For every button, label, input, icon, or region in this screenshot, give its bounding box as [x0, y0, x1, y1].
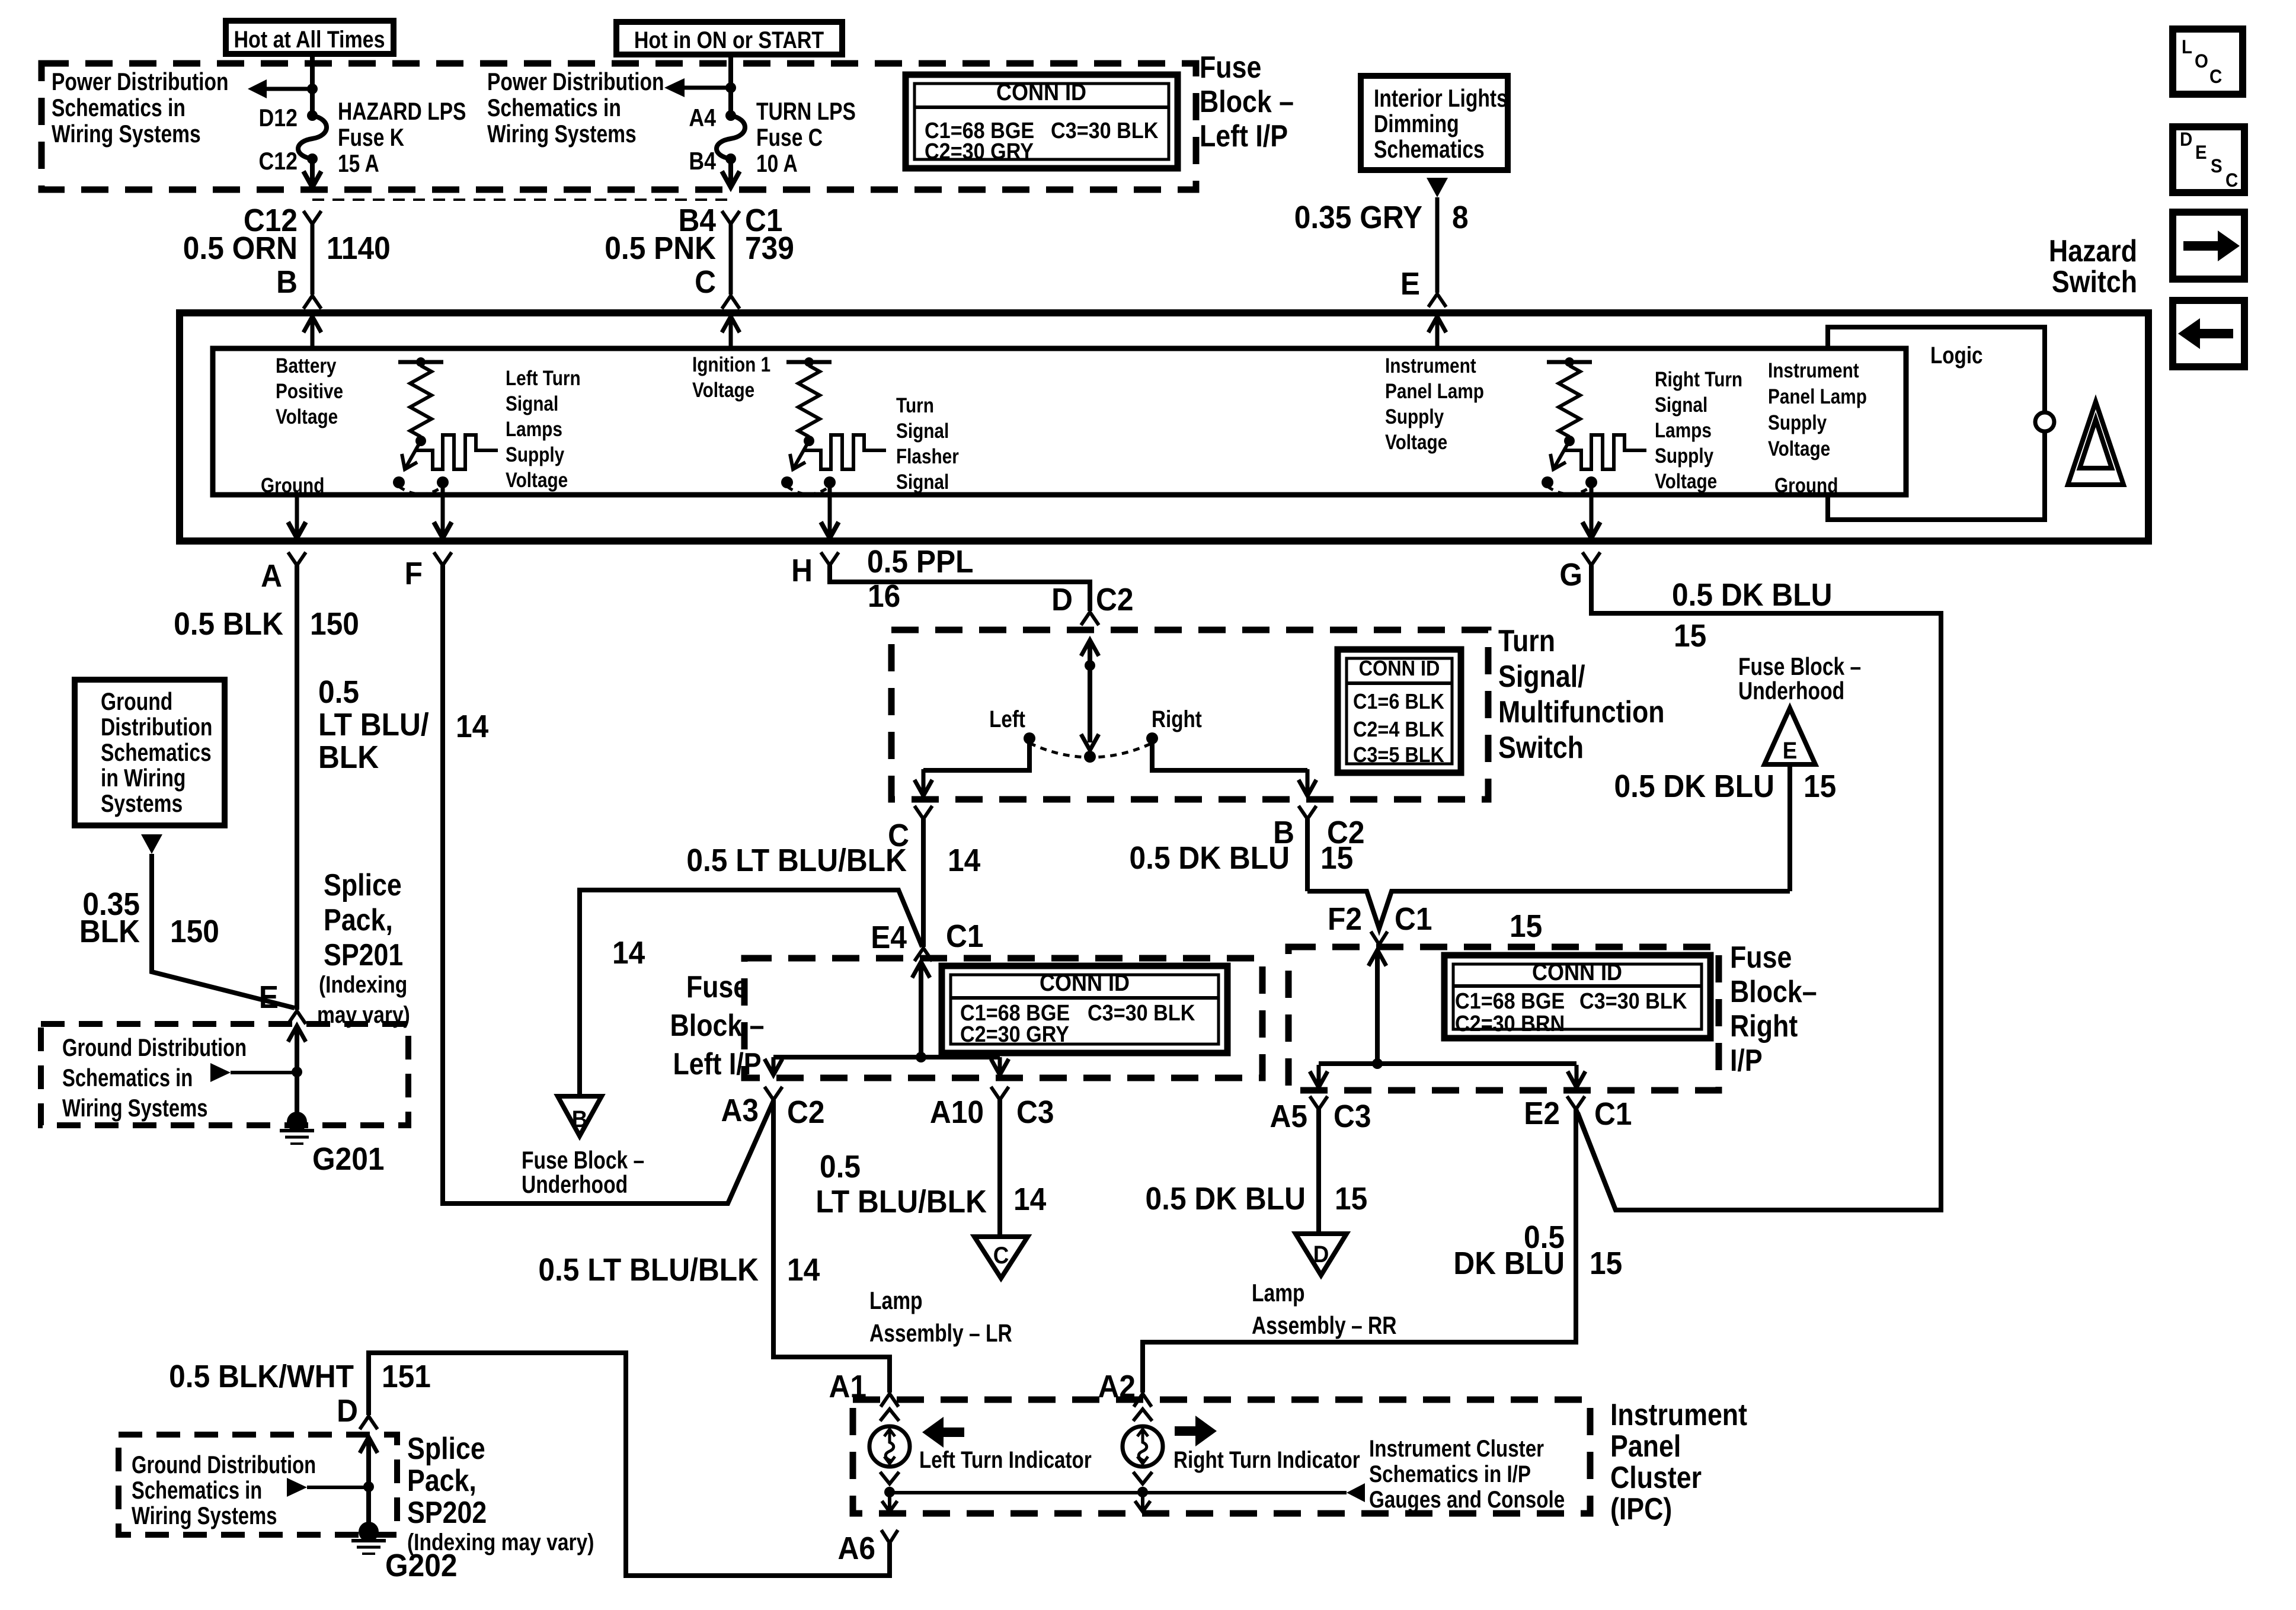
box Ground Distribution Schematics in Wiring Systems: [75, 680, 225, 825]
pin G exit arrow: [1590, 482, 1594, 534]
icon box right-arrow: [2173, 212, 2244, 279]
svg-text:Schematics: Schematics: [101, 740, 212, 767]
dashed box: Power Distribution / Fuse Block - Left I/P: [41, 63, 1196, 190]
wire 14 LT BLU/BLK from pin F: [443, 565, 773, 1204]
dashed box ground distribution SP202: [119, 1435, 397, 1535]
ground G201 symbol: [287, 1112, 307, 1132]
svg-text:Ignition 1: Ignition 1: [692, 353, 770, 376]
connector H below hazard switch: [821, 552, 839, 565]
left turn indicator lamp: [869, 1426, 910, 1467]
svg-text:15: 15: [1803, 768, 1836, 804]
left turn indicator lamp outlet chevron: [880, 1472, 899, 1484]
svg-text:Assembly – LR: Assembly – LR: [869, 1320, 1012, 1347]
connector A1 at instrument panel cluster: [881, 1394, 898, 1407]
svg-text:C: C: [993, 1243, 1009, 1269]
switch contact Left: [1024, 732, 1035, 744]
triangle connector B fuse block underhood: [558, 1096, 602, 1136]
junction node SP201: [292, 1067, 302, 1077]
svg-text:Lamp: Lamp: [1252, 1280, 1305, 1307]
svg-text:15: 15: [1510, 908, 1542, 943]
svg-text:Pack,: Pack,: [324, 903, 393, 937]
connector A6 below cluster: [881, 1530, 898, 1543]
svg-text:CONN ID: CONN ID: [996, 79, 1086, 105]
svg-text:Dimming: Dimming: [1374, 111, 1459, 138]
svg-text:Fuse: Fuse: [686, 970, 748, 1004]
left lamp junction node: [884, 1487, 895, 1497]
arrow to ground distribution schematics (G201): [210, 1063, 231, 1082]
svg-text:0.5 DK BLU: 0.5 DK BLU: [1672, 577, 1832, 612]
junction node SP202: [363, 1481, 374, 1492]
wire into splice SP201: [295, 1024, 299, 1028]
svg-text:SP202: SP202: [407, 1496, 487, 1530]
svg-text:Ground Distribution: Ground Distribution: [62, 1033, 247, 1061]
svg-text:Ground Distribution: Ground Distribution: [132, 1451, 316, 1478]
svg-text:16: 16: [868, 578, 900, 613]
svg-text:A4: A4: [689, 104, 716, 132]
fuse K HAZARD LPS 15A: [307, 110, 318, 121]
right turn indicator lamp inlet chevron: [1133, 1409, 1152, 1421]
wire from Left contact to pin C: [923, 743, 1029, 770]
svg-text:Logic: Logic: [1930, 342, 1983, 369]
hazard warning triangle symbol: [2068, 402, 2124, 485]
svg-text:Wiring Systems: Wiring Systems: [52, 121, 201, 148]
svg-text:Right: Right: [1730, 1009, 1798, 1044]
svg-text:DK BLU: DK BLU: [1453, 1245, 1565, 1281]
svg-text:15: 15: [1320, 840, 1353, 875]
svg-text:D: D: [1051, 581, 1073, 617]
right turn indicator lamp: [1123, 1426, 1163, 1467]
svg-text:Switch: Switch: [1498, 731, 1584, 765]
svg-text:Turn: Turn: [1498, 624, 1555, 658]
svg-text:HAZARD LPS: HAZARD LPS: [338, 98, 466, 126]
svg-text:10 A: 10 A: [756, 151, 798, 178]
svg-text:E2: E2: [1524, 1095, 1560, 1131]
svg-text:Fuse K: Fuse K: [338, 124, 404, 152]
connector F below hazard switch: [434, 552, 452, 565]
svg-text:Voltage: Voltage: [1655, 470, 1717, 493]
svg-text:D: D: [2180, 129, 2192, 150]
connector A3/C2: [765, 1087, 782, 1100]
switch throw dashed arc: [1029, 743, 1152, 757]
connector A2 at instrument panel cluster: [1134, 1394, 1152, 1407]
svg-text:A3: A3: [721, 1092, 759, 1128]
connector D/C2 at multifunction switch: [1081, 612, 1099, 625]
svg-text:Splice: Splice: [407, 1432, 485, 1466]
svg-text:CONN ID: CONN ID: [1532, 959, 1622, 985]
fuse block left internal wire: [919, 960, 923, 964]
CONN ID table: fuse block left I/P (lower): [942, 966, 1227, 1053]
svg-text:14: 14: [948, 842, 980, 878]
svg-text:G: G: [1559, 556, 1582, 592]
svg-text:D: D: [1313, 1241, 1329, 1268]
svg-text:C12: C12: [259, 148, 298, 175]
svg-text:Gauges and Console: Gauges and Console: [1369, 1486, 1565, 1513]
svg-text:E4: E4: [871, 919, 907, 955]
svg-text:15 A: 15 A: [338, 151, 379, 178]
svg-text:C3=30 BLK: C3=30 BLK: [1051, 117, 1158, 143]
thin dashed connector line C1: [312, 199, 731, 201]
svg-text:E: E: [259, 979, 279, 1014]
svg-text:0.5 LT BLU/BLK: 0.5 LT BLU/BLK: [538, 1251, 759, 1287]
logic box: [1828, 327, 2045, 520]
svg-text:Schematics in: Schematics in: [487, 95, 621, 122]
svg-text:Switch: Switch: [2052, 265, 2137, 299]
wire 8 GRY: interior lights dimming to hazard switch pin E: [1427, 178, 1448, 197]
svg-text:F: F: [405, 555, 423, 591]
hazard switch pin-row inner box: [213, 348, 1906, 495]
svg-text:D12: D12: [259, 104, 298, 132]
ground bus wire inside cluster: [890, 1491, 1347, 1494]
svg-text:C2=30 GRY: C2=30 GRY: [925, 138, 1034, 164]
svg-text:Schematics: Schematics: [1374, 136, 1485, 164]
svg-text:C2=4 BLK: C2=4 BLK: [1353, 718, 1444, 741]
dashed box Fuse Block - Right I/P: [1288, 947, 1719, 1090]
svg-text:Distribution: Distribution: [101, 714, 212, 741]
svg-text:0.5 BLK: 0.5 BLK: [174, 606, 283, 641]
pin F exit arrow: [441, 482, 445, 534]
svg-text:C3=30 BLK: C3=30 BLK: [1088, 1000, 1195, 1025]
svg-text:BLK: BLK: [318, 739, 379, 774]
wire from Right contact to pin B: [1152, 743, 1307, 770]
svg-text:Left I/P: Left I/P: [1200, 119, 1288, 153]
svg-text:O: O: [2195, 50, 2208, 72]
connector D at splice pack SP202: [360, 1416, 378, 1429]
wire 739 PNK: connector B4/C1 to hazard switch pin C: [722, 211, 740, 224]
svg-text:Voltage: Voltage: [692, 379, 754, 402]
svg-text:Lamps: Lamps: [506, 418, 562, 441]
svg-text:S: S: [2211, 155, 2223, 177]
svg-text:C1=6 BLK: C1=6 BLK: [1353, 690, 1444, 713]
svg-text:Block –: Block –: [670, 1009, 764, 1043]
CONN ID table: fuse block left I/P (top): [906, 75, 1178, 168]
svg-text:Ground: Ground: [101, 689, 172, 716]
svg-text:Hazard: Hazard: [2049, 234, 2137, 268]
right turn signal resistor and switch: [1547, 360, 1592, 364]
svg-text:0.5 ORN: 0.5 ORN: [183, 230, 298, 265]
svg-text:Fuse C: Fuse C: [756, 124, 823, 152]
left turn signal resistor and switch: [398, 360, 443, 364]
svg-text:Left Turn: Left Turn: [506, 367, 581, 390]
svg-text:Supply: Supply: [1655, 444, 1713, 468]
pin E entry arrow: [1435, 316, 1440, 348]
svg-text:C3=30 BLK: C3=30 BLK: [1579, 988, 1687, 1013]
svg-text:739: 739: [745, 230, 794, 265]
svg-text:A: A: [261, 558, 282, 593]
svg-text:Right Turn: Right Turn: [1655, 368, 1742, 391]
wire 15 DK BLU from pin G: [1578, 565, 1941, 1210]
svg-text:Instrument Cluster: Instrument Cluster: [1369, 1435, 1544, 1462]
wire 150 BLK from pin A: [295, 565, 299, 1010]
wire from Hot at All Times to fuse K: [310, 54, 315, 116]
svg-text:14: 14: [456, 708, 488, 744]
pin H exit arrow: [828, 482, 832, 534]
svg-text:14: 14: [787, 1251, 820, 1287]
left turn indicator lamp inlet chevron: [880, 1409, 899, 1421]
left arrow indicator icon: [944, 1427, 964, 1437]
svg-text:Turn: Turn: [896, 394, 934, 417]
svg-text:Instrument: Instrument: [1610, 1398, 1747, 1432]
svg-text:B4: B4: [689, 148, 716, 175]
svg-text:Power Distribution: Power Distribution: [52, 69, 229, 96]
svg-text:Instrument: Instrument: [1385, 354, 1476, 377]
svg-text:E: E: [1783, 738, 1798, 764]
svg-text:(IPC): (IPC): [1610, 1492, 1672, 1526]
fuse block right internal wire: [1376, 948, 1380, 952]
icon box left-arrow: [2173, 300, 2244, 367]
svg-text:Wiring Systems: Wiring Systems: [62, 1094, 207, 1122]
svg-text:E: E: [1400, 265, 1420, 301]
svg-text:CONN ID: CONN ID: [1040, 970, 1130, 996]
wire branch to fuse block underhood B: [580, 890, 922, 1096]
svg-text:15: 15: [1674, 617, 1706, 653]
svg-text:0.35 GRY: 0.35 GRY: [1294, 199, 1422, 235]
svg-text:C3: C3: [1016, 1094, 1054, 1129]
svg-text:C3: C3: [1334, 1098, 1371, 1134]
turn signal flasher resistor and switch: [786, 360, 832, 364]
wire 15 DK BLU pin B to fuse block right F2: [1305, 819, 1310, 891]
hazard switch outer box: [180, 313, 2148, 541]
svg-text:Lamps: Lamps: [1655, 419, 1712, 442]
svg-text:C2=30 GRY: C2=30 GRY: [960, 1021, 1069, 1046]
dashed box Turn Signal/Multifunction Switch: [891, 630, 1488, 799]
svg-text:C3=5 BLK: C3=5 BLK: [1353, 743, 1444, 767]
icon box LOC: [2173, 29, 2243, 94]
dashed box ground distribution G201: [41, 1024, 408, 1125]
wire 14 LT BLU/BLK A10 to lamp assembly LR: [997, 1100, 1002, 1237]
wire 16 PPL from pin H: [830, 565, 1090, 611]
svg-text:Block–: Block–: [1730, 975, 1817, 1009]
right lamp junction node: [1137, 1487, 1148, 1497]
svg-text:Right: Right: [1152, 706, 1202, 732]
svg-text:Left I/P: Left I/P: [673, 1047, 761, 1081]
svg-text:Voltage: Voltage: [1768, 437, 1830, 460]
svg-text:in Wiring: in Wiring: [101, 765, 186, 792]
CONN ID table: multifunction switch: [1338, 649, 1461, 773]
svg-text:0.5 LT BLU/BLK: 0.5 LT BLU/BLK: [686, 842, 907, 878]
connector C below multifunction switch: [914, 806, 932, 819]
svg-text:Multifunction: Multifunction: [1498, 695, 1665, 729]
svg-text:Voltage: Voltage: [276, 405, 338, 428]
svg-text:A6: A6: [837, 1530, 875, 1566]
ground G202 symbol: [359, 1522, 379, 1542]
svg-text:LT BLU/BLK: LT BLU/BLK: [816, 1183, 987, 1219]
svg-text:Left: Left: [989, 706, 1025, 732]
svg-text:Ground: Ground: [1774, 474, 1838, 497]
svg-text:Splice: Splice: [324, 868, 402, 902]
svg-text:Hot in ON or START: Hot in ON or START: [634, 26, 824, 53]
triangle connector D lamp assembly RR: [1296, 1234, 1347, 1275]
svg-text:C2: C2: [787, 1094, 825, 1129]
svg-text:Block –: Block –: [1200, 85, 1294, 119]
svg-text:A5: A5: [1269, 1098, 1307, 1134]
svg-text:Hot at All Times: Hot at All Times: [234, 25, 385, 52]
svg-text:Battery: Battery: [276, 354, 336, 377]
connector G below hazard switch: [1582, 552, 1600, 565]
wire 15 DK BLU A5 to lamp assembly RR: [1316, 1109, 1321, 1234]
svg-text:150: 150: [170, 913, 219, 949]
wire 15 DK BLU E2 to instrument cluster A2: [1143, 1109, 1576, 1393]
svg-text:151: 151: [382, 1358, 431, 1394]
connector E2/C1: [1567, 1096, 1585, 1109]
wire 1140 ORN: connector C12 to hazard switch pin B: [303, 211, 321, 224]
svg-text:LT BLU/: LT BLU/: [318, 706, 429, 742]
arrow to power distribution (left): [266, 87, 312, 91]
svg-text:8: 8: [1452, 199, 1469, 235]
svg-text:BLK: BLK: [79, 913, 140, 949]
connector E at splice pack SP201: [288, 1011, 306, 1024]
svg-text:Schematics in: Schematics in: [62, 1064, 193, 1092]
svg-text:Supply: Supply: [506, 443, 564, 466]
svg-text:150: 150: [310, 606, 359, 641]
logic output node circle: [2035, 412, 2054, 431]
CONN ID table: fuse block right I/P: [1444, 955, 1710, 1038]
svg-text:TURN LPS: TURN LPS: [756, 98, 856, 126]
svg-text:Systems: Systems: [101, 790, 183, 818]
connector A10/C3: [991, 1087, 1009, 1100]
svg-text:C2: C2: [1096, 581, 1134, 617]
svg-text:C1: C1: [946, 918, 984, 953]
icon box DESC: [2173, 127, 2244, 193]
svg-text:Underhood: Underhood: [1738, 678, 1844, 705]
wire 14 LT BLU/BLK pin C to fuse block E4: [921, 819, 926, 947]
svg-text:Schematics in: Schematics in: [132, 1476, 262, 1504]
svg-text:B: B: [276, 264, 298, 299]
connector E4/C1 at fuse block left I/P: [914, 948, 932, 961]
svg-text:Pack,: Pack,: [407, 1464, 477, 1498]
wire to fuse block underhood E triangle: [1787, 764, 1792, 891]
svg-text:C: C: [2225, 169, 2238, 191]
wire fuse K to connector C12: [310, 159, 315, 187]
wire 151 BLK/WHT instrument cluster A6 to splice SP202: [369, 1353, 890, 1576]
svg-text:Schematics in I/P: Schematics in I/P: [1369, 1461, 1531, 1487]
svg-text:0.5: 0.5: [318, 674, 359, 709]
svg-text:Fuse: Fuse: [1200, 50, 1261, 85]
svg-text:CONN ID: CONN ID: [1359, 657, 1440, 680]
svg-text:Signal: Signal: [1655, 393, 1707, 417]
svg-text:Right Turn Indicator: Right Turn Indicator: [1173, 1446, 1360, 1473]
fuse C TURN LPS 10A: [725, 110, 736, 121]
svg-text:C1=68 BGE: C1=68 BGE: [1455, 988, 1565, 1013]
svg-text:Instrument: Instrument: [1768, 359, 1859, 382]
wire 150 BLK 0.35 from ground distribution box: [141, 834, 162, 854]
svg-text:14: 14: [612, 934, 645, 970]
svg-text:H: H: [791, 552, 813, 588]
svg-text:Fuse Block –: Fuse Block –: [522, 1147, 644, 1174]
svg-text:Lamp: Lamp: [869, 1288, 923, 1315]
svg-text:Fuse Block –: Fuse Block –: [1738, 654, 1861, 681]
svg-text:Signal: Signal: [896, 470, 949, 494]
svg-text:Signal: Signal: [896, 420, 949, 443]
wire from Hot in ON or START to fuse C: [728, 54, 733, 116]
arrow to power distribution (right): [683, 86, 731, 90]
right turn indicator lamp outlet chevron: [1133, 1472, 1152, 1484]
svg-text:I/P: I/P: [1730, 1044, 1763, 1078]
svg-text:14: 14: [1013, 1181, 1046, 1217]
svg-text:Positive: Positive: [276, 380, 343, 403]
svg-text:Underhood: Underhood: [522, 1172, 628, 1199]
svg-text:0.5 BLK/WHT: 0.5 BLK/WHT: [169, 1358, 354, 1394]
dashed box Instrument Panel Cluster IPC: [853, 1400, 1590, 1513]
svg-text:Voltage: Voltage: [506, 469, 568, 492]
wire E2 diagonal joining DK BLU 15 from G: [1576, 1109, 1616, 1210]
svg-text:Supply: Supply: [1385, 405, 1444, 428]
svg-text:15: 15: [1335, 1180, 1367, 1216]
connector F2/C1 at fuse block right I/P: [1371, 932, 1387, 945]
triangle connector E fuse block underhood: [1764, 708, 1815, 764]
power feed box: Hot at All Times: [226, 21, 394, 54]
svg-text:Panel Lamp: Panel Lamp: [1768, 385, 1867, 408]
pin C entry arrow: [729, 316, 733, 348]
svg-text:(Indexing may vary): (Indexing may vary): [407, 1529, 594, 1555]
svg-text:Fuse: Fuse: [1730, 940, 1792, 975]
svg-text:Left Turn Indicator: Left Turn Indicator: [919, 1446, 1092, 1473]
svg-text:A10: A10: [930, 1094, 984, 1129]
svg-text:Flasher: Flasher: [896, 445, 959, 468]
connector A5/C3: [1310, 1096, 1328, 1109]
svg-text:0.5 PNK: 0.5 PNK: [605, 230, 716, 265]
svg-text:Wiring Systems: Wiring Systems: [132, 1502, 277, 1529]
box: Interior Lights Dimming Schematics: [1361, 76, 1508, 170]
svg-text:Wiring Systems: Wiring Systems: [487, 121, 637, 148]
svg-text:Supply: Supply: [1768, 411, 1827, 434]
svg-text:C2=30 BRN: C2=30 BRN: [1455, 1010, 1565, 1036]
svg-text:SP201: SP201: [324, 938, 403, 972]
svg-text:Power Distribution: Power Distribution: [487, 69, 664, 96]
svg-text:0.5 DK BLU: 0.5 DK BLU: [1146, 1180, 1306, 1216]
svg-text:0.5 DK BLU: 0.5 DK BLU: [1130, 840, 1290, 875]
svg-text:Voltage: Voltage: [1385, 431, 1447, 454]
svg-text:Cluster: Cluster: [1610, 1461, 1702, 1495]
svg-text:(Indexing: (Indexing: [319, 971, 407, 997]
svg-text:15: 15: [1590, 1245, 1622, 1281]
triangle connector C lamp assembly LR: [974, 1237, 1028, 1278]
connector A below hazard switch: [288, 552, 306, 565]
wire fuse C to connector B4: [728, 159, 733, 187]
pin A exit arrow: [295, 495, 299, 534]
right arrow indicator icon: [1175, 1426, 1195, 1436]
svg-text:C: C: [2209, 66, 2222, 87]
svg-text:Schematics in: Schematics in: [52, 95, 186, 122]
svg-text:C: C: [695, 264, 716, 299]
svg-text:F2: F2: [1328, 901, 1362, 936]
svg-text:0.5 DK BLU: 0.5 DK BLU: [1614, 768, 1774, 804]
svg-text:Panel: Panel: [1610, 1429, 1681, 1464]
power feed box: Hot in ON or START: [616, 22, 842, 55]
svg-text:C1: C1: [1594, 1096, 1632, 1131]
svg-text:0.5: 0.5: [820, 1148, 861, 1184]
svg-text:G201: G201: [312, 1141, 385, 1176]
arrow to instrument cluster schematics: [1347, 1483, 1365, 1502]
switch contact Right: [1146, 732, 1158, 744]
svg-text:Ground: Ground: [261, 474, 324, 497]
svg-text:B: B: [572, 1106, 588, 1133]
wire into splice SP202: [367, 1435, 371, 1439]
svg-text:L: L: [2182, 36, 2192, 57]
wire 14 LT BLU/BLK A3 to instrument cluster A1: [773, 1100, 890, 1393]
svg-text:D: D: [337, 1393, 358, 1428]
svg-text:0.5 PPL: 0.5 PPL: [867, 543, 973, 579]
pin B entry arrow: [311, 316, 315, 348]
svg-text:Interior Lights: Interior Lights: [1374, 85, 1508, 113]
switch pole wire from D: [1088, 638, 1092, 642]
svg-text:1140: 1140: [327, 230, 391, 265]
svg-text:Assembly – RR: Assembly – RR: [1252, 1313, 1397, 1340]
svg-text:C1: C1: [1395, 901, 1432, 936]
svg-text:Signal: Signal: [506, 392, 558, 415]
dashed box Fuse Block - Left I/P (lower): [744, 958, 1262, 1078]
arrow to ground distribution schematics (SP202): [287, 1478, 307, 1497]
svg-text:E: E: [2195, 142, 2207, 163]
